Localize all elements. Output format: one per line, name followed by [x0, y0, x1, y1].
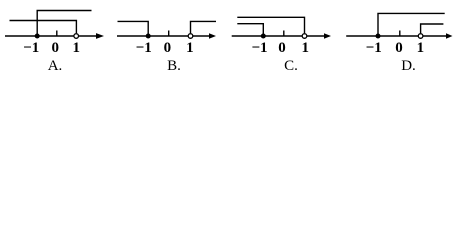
svg-text:−1: −1: [23, 40, 39, 56]
svg-text:1: 1: [417, 40, 425, 56]
svg-text:0: 0: [164, 40, 172, 56]
svg-text:0: 0: [278, 40, 286, 56]
svg-text:−1: −1: [251, 40, 267, 56]
svg-text:−1: −1: [366, 40, 382, 56]
svg-text:B.: B.: [167, 58, 181, 74]
svg-text:1: 1: [72, 40, 80, 56]
svg-text:−1: −1: [136, 40, 152, 56]
svg-text:1: 1: [186, 40, 194, 56]
svg-text:D.: D.: [401, 58, 416, 74]
svg-text:C.: C.: [284, 58, 298, 74]
svg-text:1: 1: [301, 40, 309, 56]
svg-text:0: 0: [395, 40, 403, 56]
svg-text:0: 0: [52, 40, 60, 56]
svg-text:A.: A.: [48, 58, 63, 74]
